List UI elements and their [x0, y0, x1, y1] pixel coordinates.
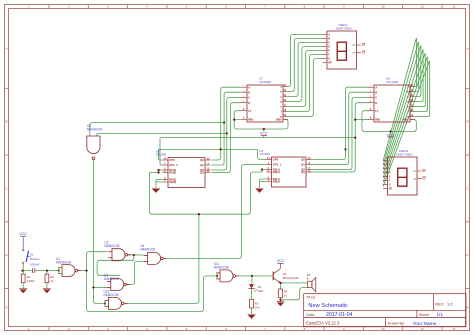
wire U7 out 5 to 7SEG1 [287, 55, 323, 112]
switch S1 [22, 248, 40, 266]
svg-text:11: 11 [421, 327, 424, 331]
svg-text:G: G [389, 184, 391, 187]
wire U7 out 0 to 7SEG1 [287, 35, 323, 87]
svg-text:D: D [5, 253, 7, 257]
svg-text:A: A [248, 85, 250, 89]
svg-text:R0(2): R0(2) [169, 171, 176, 175]
nand-gate U10 [105, 297, 128, 309]
svg-text:CP1_1: CP1_1 [169, 163, 178, 167]
ground R2 [43, 289, 51, 293]
svg-text:1000k: 1000k [27, 279, 35, 283]
svg-text:LED: LED [258, 289, 263, 293]
svg-text:1.0: 1.0 [447, 302, 453, 307]
svg-text:12: 12 [452, 327, 456, 331]
svg-text:B: B [467, 120, 469, 124]
junction [85, 269, 87, 271]
display 7SEG2 [388, 157, 418, 195]
svg-text:DP: DP [389, 188, 393, 191]
resistor R5 [250, 299, 254, 308]
ground R1 [19, 289, 27, 293]
svg-text:300: 300 [255, 305, 260, 309]
svg-text:Q0: Q0 [301, 158, 305, 162]
junction [58, 269, 60, 271]
wire U9 input1 to riser2 [90, 123, 224, 137]
svg-text:VCC: VCC [19, 232, 27, 236]
svg-text:D: D [466, 253, 468, 257]
wire emitter to speaker [281, 282, 308, 284]
wire U10 out to bus [127, 214, 199, 303]
junction [220, 148, 222, 150]
nand-gate U3 [107, 278, 130, 290]
wire U6 Q3 to U7 input [212, 103, 242, 173]
wire U8 out 5 fan to 7SEG2 [383, 57, 427, 182]
svg-text:D: D [389, 172, 391, 175]
junction [354, 118, 356, 120]
svg-text:A: A [467, 46, 469, 50]
wire R2 to gnd [46, 283, 48, 289]
junction [279, 282, 281, 284]
svg-text:Your Name: Your Name [413, 321, 437, 327]
resistor R4 [279, 289, 283, 298]
svg-text:A: A [6, 46, 8, 50]
ic U8 74LS248 [374, 85, 410, 122]
capacitor C plates [32, 268, 34, 273]
svg-text:A: A [328, 34, 330, 37]
svg-text:NANDC08: NANDC08 [104, 277, 119, 281]
title block [304, 294, 466, 327]
svg-text:74LS90: 74LS90 [259, 152, 270, 156]
wire LED to R5 [251, 289, 253, 300]
svg-text:D: D [248, 101, 250, 105]
svg-text:E: E [467, 305, 469, 309]
wire U7 out 4 to 7SEG1 [287, 51, 323, 107]
wire R4 to gnd [280, 298, 282, 302]
wire LED branch [251, 276, 253, 284]
wire U6 CP0 from clock line [158, 149, 162, 160]
transistor Q4 [273, 269, 298, 284]
wire latch left vertical to U11 [87, 252, 218, 312]
ic U7 74LS248 [247, 85, 283, 122]
wire VCC to S1 [22, 237, 24, 248]
wire U8 out 3 fan to 7SEG2 [383, 49, 423, 173]
wire S1 to node [22, 265, 24, 274]
junction [251, 275, 253, 277]
svg-text:11: 11 [421, 5, 424, 9]
svg-text:10: 10 [381, 5, 385, 9]
wire U5 Q2 to U8 input [312, 97, 369, 169]
wire Q4 emitter to R4 [280, 283, 282, 289]
svg-text:Q1: Q1 [200, 163, 204, 167]
wire U1 output to latch node [81, 270, 87, 272]
svg-text:LT: LT [375, 109, 379, 113]
wire U11 out to Q4 base [239, 275, 274, 277]
wire U7 out 3 to 7SEG1 [287, 47, 323, 102]
wire U7 LT tie [234, 111, 241, 120]
wire U4 out riser to U5 CP1 [167, 165, 266, 259]
wire U7 VCC stem [263, 129, 265, 131]
wire U8 out 4 fan to 7SEG2 [383, 53, 425, 177]
junction [223, 121, 225, 123]
svg-text:DISP 7SEG: DISP 7SEG [397, 153, 413, 157]
svg-text:9DC(W)(U)R: 9DC(W)(U)R [283, 276, 299, 280]
tie U1 inputs [58, 268, 60, 274]
nand-gate U11 [216, 270, 239, 282]
svg-text:VCC: VCC [277, 259, 285, 263]
svg-text:C: C [375, 96, 377, 100]
svg-text:NANDC08: NANDC08 [56, 261, 71, 265]
wire U8 out 2 fan to 7SEG2 [383, 46, 421, 169]
svg-text:2017-01-04: 2017-01-04 [326, 312, 353, 318]
display 7SEG1 [327, 31, 357, 69]
junction [216, 275, 218, 277]
svg-text:CP0: CP0 [273, 158, 279, 162]
svg-text:B: B [389, 164, 391, 167]
speaker R6 [307, 273, 316, 292]
wire S1 node to C1 cap [23, 270, 32, 272]
nand-gate U4 [144, 252, 167, 264]
ground U5 resets [256, 188, 264, 192]
svg-text:G: G [328, 58, 330, 61]
junction [389, 130, 391, 132]
wire U7 RBI loop [234, 120, 288, 129]
junction [198, 213, 200, 215]
wire U6 Q2 to U7 input [212, 97, 242, 170]
svg-text:Q3: Q3 [301, 170, 305, 174]
svg-text:R9(2): R9(2) [169, 180, 176, 184]
wire U8 VCC stem [390, 132, 392, 134]
svg-text:Drawn By:: Drawn By: [388, 322, 406, 326]
wire U8 out 1 fan to 7SEG2 [383, 42, 419, 165]
svg-text:Sheet:: Sheet: [419, 313, 430, 317]
svg-text:R9(2): R9(2) [273, 180, 280, 184]
ground U6 resets [152, 188, 160, 192]
svg-text:10: 10 [381, 327, 385, 331]
resistor R1 [21, 274, 25, 283]
wire speaker return [281, 288, 308, 300]
wire U8 out 0 fan to 7SEG2 [383, 38, 416, 160]
wire R5 to gnd [251, 308, 253, 314]
wire U8 LT tie [362, 111, 369, 120]
wire U7 out 6 to 7SEG1 [287, 59, 323, 117]
svg-text:S1: S1 [30, 252, 34, 256]
wire U9 output down to U10 inputs [93, 160, 105, 304]
svg-text:VCC: VCC [260, 132, 268, 136]
junction [157, 169, 159, 171]
wire U5 R9 tie to gnd [260, 179, 267, 182]
wire U6 R0 tie [150, 170, 163, 173]
svg-text:f: f [408, 110, 409, 114]
svg-text:REV:: REV: [435, 303, 444, 307]
ground R4 [277, 302, 285, 306]
svg-text:Button1: Button1 [30, 257, 40, 261]
svg-text:D: D [375, 101, 377, 105]
svg-text:1000nF: 1000nF [30, 262, 40, 266]
svg-text:Date:: Date: [306, 313, 315, 317]
wire U5 R0 tie [262, 170, 266, 173]
wire clock line [158, 148, 257, 150]
svg-text:B: B [375, 90, 377, 94]
junction [133, 254, 135, 256]
svg-text:f: f [281, 110, 282, 114]
svg-text:NANDC08: NANDC08 [140, 248, 155, 252]
svg-text:C: C [328, 42, 330, 45]
svg-text:R0(2): R0(2) [273, 170, 280, 174]
wire VCC line drop to U6 CP1 [160, 138, 163, 165]
wire VCC line [160, 137, 355, 139]
wire U5 Q0 to U8 input [312, 87, 369, 159]
svg-text:D: D [328, 46, 330, 49]
svg-text:RBI: RBI [375, 118, 380, 122]
junction [261, 168, 263, 170]
junction [104, 302, 106, 304]
svg-text:B: B [248, 90, 250, 94]
svg-text:C: C [389, 168, 391, 171]
junction [157, 171, 159, 173]
wire U8 RBo loop [362, 120, 416, 132]
svg-text:1/1: 1/1 [437, 312, 444, 317]
wire U7 out 1 to 7SEG1 [287, 39, 323, 92]
wire clock to U5 CP0 [258, 149, 266, 159]
wire U6 R9 tie to gnd [156, 180, 163, 183]
wire U8 out 6 fan to 7SEG2 [383, 61, 430, 186]
ic U6 74LS90 [168, 158, 205, 188]
svg-text:A: A [375, 85, 377, 89]
wire U5 Q1 to U8 input [312, 92, 369, 164]
wire U5 Q3 to U8 input [312, 103, 369, 172]
wire branch to U3 input B [93, 286, 107, 288]
wire R1 to gnd [22, 283, 24, 289]
wire cap to R2 to U1 inputs [35, 270, 59, 272]
svg-text:Q1: Q1 [301, 163, 305, 167]
svg-text:E: E [6, 305, 8, 309]
nand-gate U1 [58, 265, 81, 277]
svg-text:B: B [6, 120, 8, 124]
svg-text:Q0: Q0 [200, 158, 204, 162]
svg-text:CP1_1: CP1_1 [273, 163, 282, 167]
junction [354, 136, 356, 138]
wire R2 top [46, 271, 48, 275]
wire U7 out 2 to 7SEG1 [287, 43, 323, 97]
wire U5 R9 down [259, 182, 261, 188]
wire cross-couple box top [97, 260, 134, 275]
ground R5 [248, 314, 256, 318]
svg-text:C: C [466, 186, 468, 190]
svg-text:74LS90: 74LS90 [156, 153, 167, 157]
svg-text:74LS248: 74LS248 [259, 80, 271, 84]
junction [92, 286, 94, 288]
junction [21, 269, 23, 271]
resistor R2 [45, 274, 49, 283]
junction [263, 128, 265, 130]
wire U6 Q1 to U7 input [212, 92, 242, 165]
svg-text:DP: DP [328, 62, 332, 65]
nand-gate U2 [108, 249, 131, 261]
svg-text:NANDC08: NANDC08 [105, 244, 120, 248]
svg-text:CP0: CP0 [169, 158, 175, 162]
svg-text:NANDC08: NANDC08 [87, 127, 102, 131]
svg-text:RBI: RBI [248, 118, 253, 122]
ic U5 74LS90 [272, 157, 307, 187]
junction [344, 148, 346, 150]
junction [233, 118, 235, 120]
wire reset bus [150, 172, 263, 214]
svg-text:EasyEDA V3.12.3: EasyEDA V3.12.3 [306, 321, 340, 326]
wire U6 Q0 to U7 input [212, 87, 242, 160]
wire U2 out branch down [133, 255, 135, 260]
wire U3 out to U4 input B [126, 261, 144, 284]
svg-text:B: B [328, 38, 330, 41]
wire U6 R9 down [155, 182, 157, 188]
junction [46, 269, 48, 271]
nand-gate U9 [87, 136, 100, 160]
led D1 [249, 284, 264, 293]
svg-text:C: C [5, 186, 7, 190]
svg-text:TITLE:: TITLE: [306, 296, 316, 300]
svg-text:NANDC08: NANDC08 [214, 266, 229, 270]
svg-text:LT: LT [248, 109, 252, 113]
wire U2 out to U4 input A [127, 254, 144, 256]
junction [279, 299, 281, 301]
junction [226, 132, 228, 134]
svg-text:74LS248: 74LS248 [386, 80, 398, 84]
svg-text:Q3: Q3 [200, 171, 204, 175]
svg-text:New Schematic: New Schematic [308, 303, 348, 309]
svg-text:C: C [248, 96, 250, 100]
wire VCC to Q4 collector [280, 264, 282, 269]
svg-text:12: 12 [452, 5, 456, 9]
svg-text:A: A [389, 160, 391, 163]
wire U8 RBI tie [355, 119, 368, 121]
svg-text:NANDC08: NANDC08 [104, 293, 119, 297]
wire U9 input2 to riser3 [97, 133, 227, 136]
svg-text:DISP 7SEG: DISP 7SEG [336, 27, 352, 31]
